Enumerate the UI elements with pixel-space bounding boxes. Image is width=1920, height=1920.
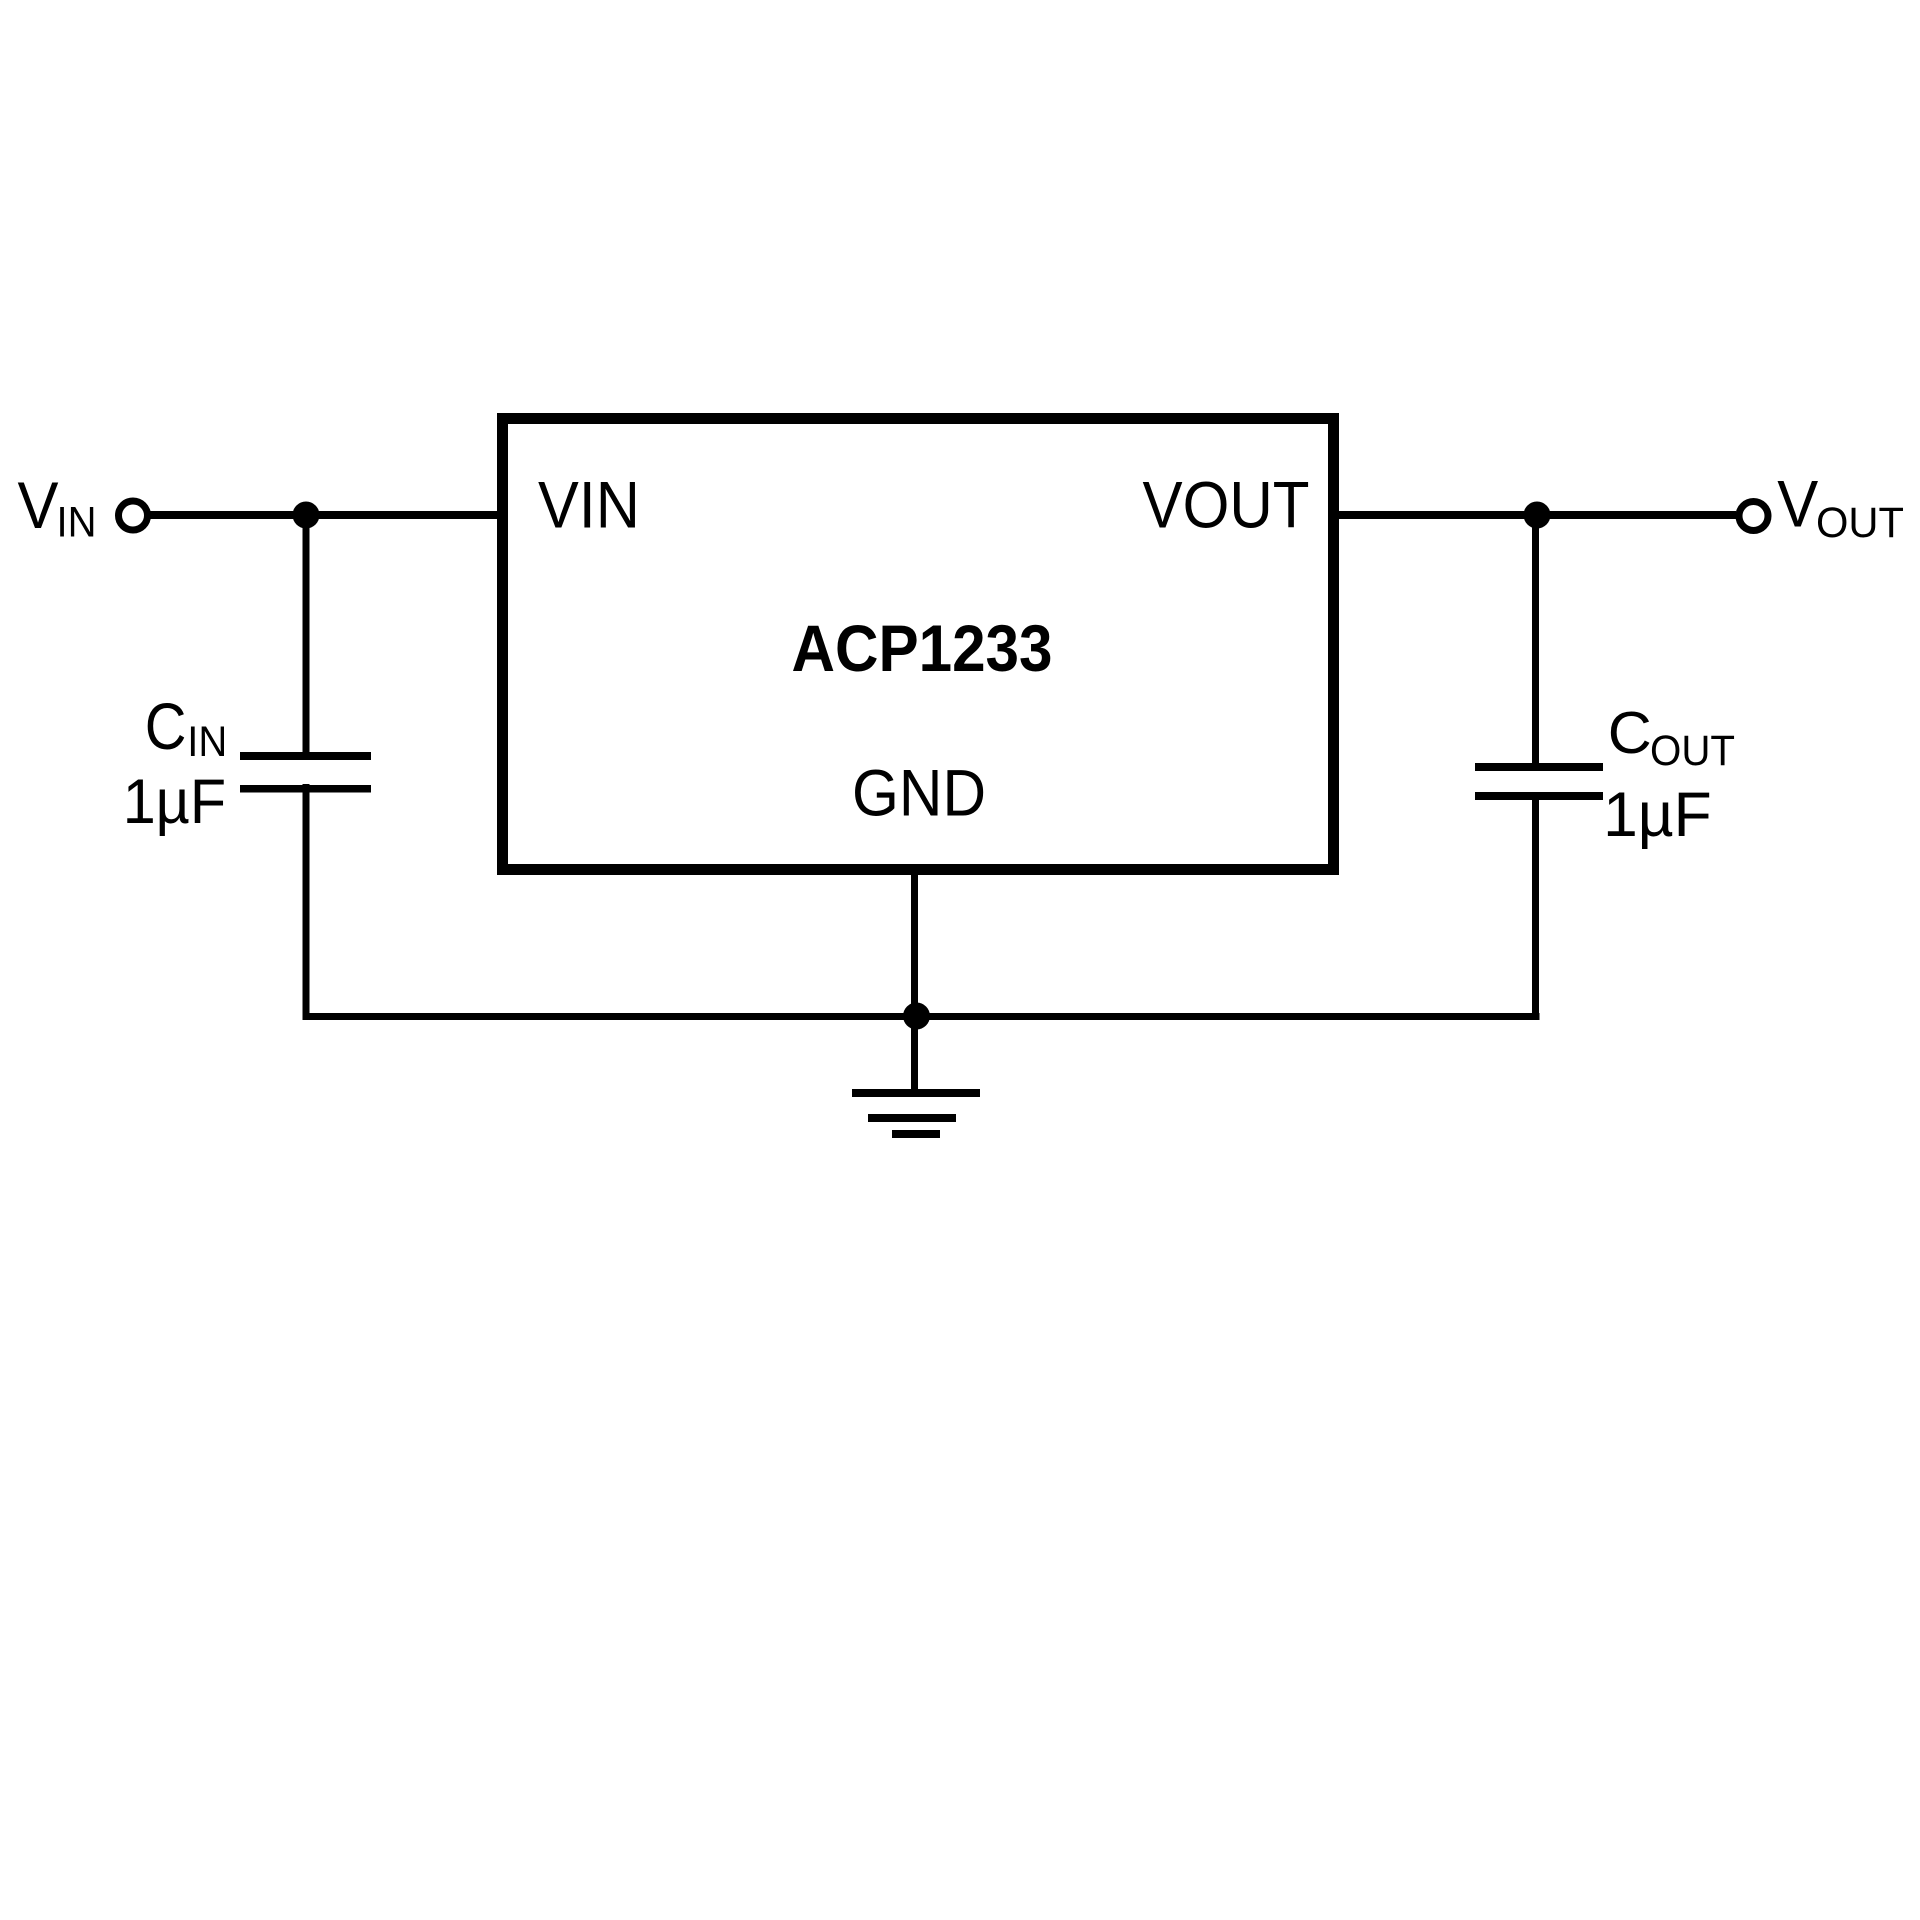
- svg-text:1µF: 1µF: [123, 767, 226, 837]
- capacitor COUT top plate: [1475, 763, 1603, 771]
- svg-text:1µF: 1µF: [1603, 780, 1712, 850]
- capacitor CIN label: [145, 689, 228, 766]
- wire GND pin down to ground rail: [911, 869, 918, 1020]
- ground symbol bar 3: [892, 1130, 940, 1138]
- svg-text:IN: IN: [57, 499, 97, 547]
- capacitor CIN top plate: [240, 752, 371, 760]
- IC U1 ACP1233 box: [503, 419, 1334, 870]
- node VOUT label: [1777, 467, 1904, 548]
- svg-text:VIN: VIN: [538, 468, 640, 542]
- svg-text:V: V: [1777, 467, 1818, 541]
- capacitor COUT bottom plate: [1475, 792, 1603, 800]
- capacitor COUT label: [1608, 700, 1735, 775]
- wire junction down to CIN top plate: [303, 515, 310, 757]
- svg-text:GND: GND: [852, 756, 986, 830]
- svg-text:OUT: OUT: [1816, 499, 1904, 547]
- wire VIN terminal to IC VIN pin: [150, 511, 498, 519]
- terminal VOUT (open circle): [1739, 502, 1768, 531]
- wire CIN bottom plate down to ground rail: [303, 784, 310, 1020]
- wire IC VOUT pin to VOUT terminal: [1339, 511, 1736, 519]
- ground symbol bar 1: [852, 1089, 980, 1097]
- wire junction down to ground symbol: [911, 1016, 918, 1093]
- ground rail wire: [303, 1013, 1540, 1020]
- terminal VIN (open circle): [119, 501, 148, 530]
- svg-text:OUT: OUT: [1650, 727, 1735, 775]
- node junction dot at GND rail: [903, 1003, 930, 1030]
- node VIN label: [18, 468, 97, 547]
- wire junction down to COUT top plate: [1532, 515, 1539, 771]
- svg-text:VOUT: VOUT: [1143, 468, 1310, 542]
- svg-text:IN: IN: [187, 718, 227, 766]
- wire COUT bottom plate down to ground rail: [1532, 792, 1539, 1020]
- svg-text:C: C: [145, 689, 187, 763]
- svg-text:V: V: [18, 468, 59, 542]
- node junction dot at CIN: [293, 502, 320, 529]
- svg-text:ACP1233: ACP1233: [792, 611, 1053, 685]
- capacitor CIN bottom plate: [240, 785, 371, 793]
- ground symbol bar 2: [868, 1114, 956, 1122]
- svg-text:C: C: [1608, 700, 1652, 766]
- node junction dot at COUT: [1524, 502, 1551, 529]
